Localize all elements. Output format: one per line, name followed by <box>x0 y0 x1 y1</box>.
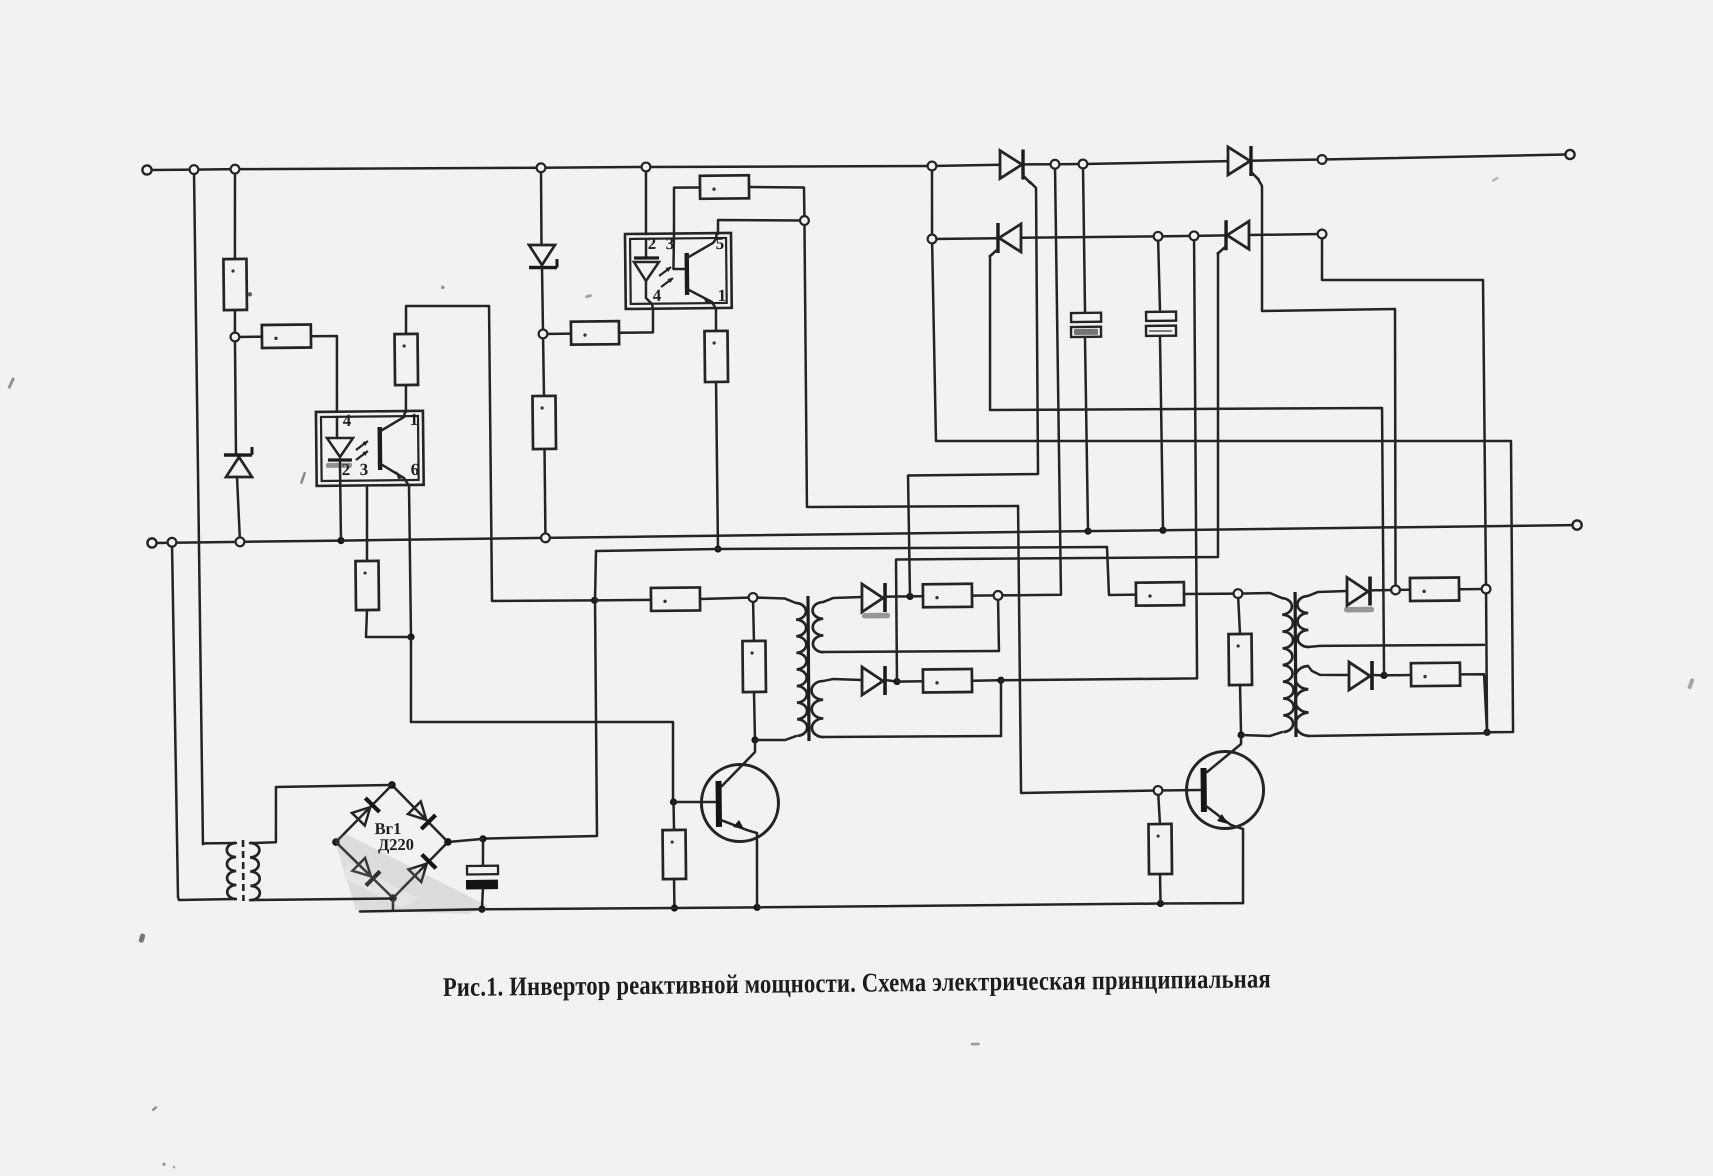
wire: VT2 collector <box>1207 735 1242 772</box>
node: rowA after R17 <box>1482 585 1491 594</box>
node: bottom bus / left column end <box>236 537 245 546</box>
resistor R17 <box>1410 577 1459 601</box>
input transformer T1 primary winding <box>227 843 237 899</box>
wire: commutation loop 441-line <box>932 233 1514 738</box>
zener diode VD1 <box>224 447 252 477</box>
emitter arrow VT2 <box>1217 814 1228 824</box>
wire: U2 phototransistor collector to pin 5 <box>687 234 717 258</box>
wire: feed line drop at x596 <box>594 551 596 600</box>
wire: VS4 gate chain <box>893 253 1223 682</box>
smudged label under VD4 <box>862 613 890 619</box>
node: VT2 base <box>1154 786 1163 795</box>
smudged type label under U1 LED <box>326 463 352 468</box>
junction: rectifier output / C3 <box>479 835 486 842</box>
wire: bottom bus <box>341 538 545 541</box>
wire <box>1023 163 1055 166</box>
svg-text:4: 4 <box>343 411 352 430</box>
svg-text:3: 3 <box>360 460 369 479</box>
wire <box>541 167 646 168</box>
node: rowA gate tap <box>1391 586 1400 595</box>
wire: zener VD1 to bottom bus <box>237 477 240 542</box>
wire: R2 to U1 pin4 <box>311 336 338 412</box>
wire: R1 to node <box>233 310 236 337</box>
node: top bus / zener column <box>537 163 546 172</box>
wire: junction to C3 <box>481 839 484 866</box>
bridge diode VD3.2 <box>408 801 436 829</box>
scan speck <box>151 1106 157 1112</box>
light arrow in U2 <box>659 267 671 276</box>
wire <box>152 168 194 171</box>
wire: R11 to primary T3 node <box>1184 592 1238 595</box>
optocoupler U1 body <box>316 411 424 486</box>
wire: VT1 emitter to minus rail <box>756 833 757 907</box>
wire: U2 pin 5 up and right <box>718 219 802 234</box>
wire: feed line drop to R11 <box>1107 547 1136 595</box>
wire: node to R9 <box>543 332 571 335</box>
node: line2 / row2 return column <box>1190 231 1199 240</box>
junction: base drive node <box>407 633 414 640</box>
wire: minus rail left stub <box>360 909 482 911</box>
terminal: bottom bus left <box>147 538 156 547</box>
LED inside U2 <box>634 258 659 281</box>
wire: R10 down to feed line <box>716 382 718 549</box>
wire: node to R15 <box>1238 594 1240 634</box>
resistor R11 <box>1136 582 1184 606</box>
junction: U1 pin 2 / bottom bus <box>337 537 344 544</box>
scan speck <box>7 377 15 389</box>
node: top bus / row1 return column <box>1051 160 1060 169</box>
LED inside U1 <box>327 438 353 460</box>
bridge diode VD3.3 <box>352 858 380 886</box>
wire: node down and right (VT2 base feed) <box>804 218 1018 508</box>
emitter arrow in U1 <box>396 471 404 479</box>
scan smudge artifact <box>334 833 488 916</box>
junction: rowB bottom / staircase end <box>1483 729 1490 736</box>
wire: VD5 to junction <box>885 680 897 682</box>
node: line2 / capacitor C2 column <box>1154 232 1163 241</box>
resistor R12 <box>742 641 766 692</box>
wire: R6 to junction <box>366 610 411 638</box>
wire: junction to R14 <box>897 680 923 683</box>
wire: junction to bridge + output <box>448 839 483 842</box>
zener diode VD2 <box>529 245 557 268</box>
input transformer T1 secondary winding <box>250 843 260 900</box>
wire: mains column to top bus <box>194 170 203 844</box>
wire: secondary II bottom up <box>1000 680 1001 736</box>
terminal: +supply input left <box>142 165 151 174</box>
phototransistor base bar in U1 <box>377 427 382 470</box>
wire: R16 to minus rail <box>1159 874 1162 904</box>
diode VD7 <box>1349 661 1373 690</box>
wire: U1 phototransistor emitter to pin 6 <box>379 463 409 487</box>
junction: VT1 base node <box>670 798 677 805</box>
transformer T3 core <box>1294 592 1296 737</box>
thyristor VS1 <box>1000 149 1031 183</box>
wire: bottom bus <box>156 542 172 545</box>
resistor R9 <box>571 321 619 345</box>
resistor R2 <box>262 324 311 348</box>
light arrow in U1 <box>356 441 368 450</box>
resistor R4 <box>651 587 700 611</box>
wire: U2 LED cathode to pin 4 <box>646 281 653 309</box>
wire: T2 secondary II top lead <box>823 679 862 681</box>
transformer T2 primary winding <box>796 603 807 736</box>
svg-text:2: 2 <box>648 234 657 253</box>
bridge arm top-right <box>392 784 448 842</box>
wire: node to T2 primary <box>753 597 796 603</box>
bridge diode VD3.1 <box>352 798 380 826</box>
wire: top bus to zener VD2 <box>541 168 542 245</box>
svg-text:1: 1 <box>718 286 727 305</box>
emitter arrow VT1 <box>733 820 744 829</box>
wire: T1 secondary top to bridge <box>249 785 392 843</box>
junction: row2 gate tap <box>893 678 900 685</box>
wire: VD4 to junction <box>885 595 910 598</box>
wire: C3 to minus rail <box>482 889 483 909</box>
light arrow in U1 <box>356 451 368 460</box>
resistor R16 <box>1148 824 1172 874</box>
wire: R12 to bottom node <box>754 692 755 740</box>
node: bottom bus / mains column <box>168 538 177 547</box>
wire: VS2 gate chain <box>1258 178 1398 592</box>
resistor R18 <box>1411 663 1460 687</box>
wire <box>1322 155 1565 160</box>
wire: T3 secondary I top lead <box>1308 591 1347 596</box>
wire: U2 pin 1 to R10 <box>715 309 718 331</box>
smudged label under VD6 <box>1344 607 1374 613</box>
wire <box>1251 159 1322 160</box>
wire: R13 to node <box>972 594 998 597</box>
wire: U2 LED anode <box>645 239 648 258</box>
wire: zener VD2 to node <box>541 267 544 333</box>
thyristor VS3 <box>989 223 1022 257</box>
diode VD5 <box>862 666 886 695</box>
junction: bridge DC right vertex <box>444 838 452 846</box>
wire: R4 to primary T2 node <box>700 597 753 599</box>
optocoupler U2 body <box>625 233 732 309</box>
wire: node to T3 primary <box>1238 593 1282 599</box>
wire: VS1 gate chain <box>905 182 1040 597</box>
capacitor C3 (polarized) <box>466 866 498 890</box>
wire: node to R12 <box>752 597 755 641</box>
wire: R15 to bottom node <box>1240 685 1241 735</box>
wire: T3 secondary I bottom lead <box>1308 644 1484 647</box>
scan speck <box>441 285 445 289</box>
wire: bottom bus <box>1088 529 1163 532</box>
transformer T2 core <box>807 596 809 741</box>
svg-text:6: 6 <box>411 460 420 479</box>
bridge diode VD3.4 <box>408 854 436 882</box>
wire: VS3 gate chain <box>988 252 1384 680</box>
wire: junction to R13 <box>910 595 923 598</box>
junction: C1 / bottom bus <box>1084 528 1091 535</box>
wire <box>194 168 235 171</box>
wire: C1 to bottom bus <box>1085 337 1088 531</box>
terminal: bottom bus right <box>1572 520 1581 529</box>
wire: R8 to bottom bus <box>543 449 546 538</box>
junction: VT1 emitter / minus rail <box>753 904 760 911</box>
scan speck <box>300 472 306 484</box>
scan speck <box>1687 678 1694 690</box>
wire: VT1 base lead <box>674 800 716 803</box>
capacitor C1 <box>1071 313 1101 337</box>
wire: R9 to U2 pin 4 <box>619 309 653 333</box>
wire: x596 column down to rectifier output <box>481 600 598 838</box>
wire: U2 pin 3 to base <box>673 234 684 269</box>
scan speck <box>585 294 593 299</box>
transformer T3 secondary II winding <box>1295 666 1309 736</box>
wire: top bus to C1 <box>1083 164 1085 313</box>
wire: node932 to line2 <box>931 166 932 239</box>
wire: T3 secondary II top lead <box>1308 666 1349 676</box>
wire: minus rail <box>757 903 1160 908</box>
bridge arm bottom-left <box>336 841 393 898</box>
scan speck <box>971 1043 980 1046</box>
wire: long feed to row1 <box>489 305 594 601</box>
wire: VT2 emitter <box>1206 806 1243 830</box>
resistor R6 <box>355 561 379 610</box>
diode VD4 <box>862 583 886 612</box>
capacitor C2 <box>1146 312 1176 336</box>
node: top bus / commutation network column <box>928 162 937 171</box>
thyristor VS2 <box>1228 146 1259 180</box>
transformer T3 primary winding <box>1282 598 1294 732</box>
resistor R13 <box>923 584 972 608</box>
transformer T3 secondary I winding <box>1297 596 1308 647</box>
svg-text:1: 1 <box>410 410 419 429</box>
wire: T2 secondary I top lead <box>823 597 862 602</box>
wire: T1 primary bottom lead <box>178 896 236 900</box>
wire: bottom bus <box>172 541 240 544</box>
phototransistor base bar in U2 <box>684 253 689 295</box>
wire <box>932 237 998 240</box>
wire: T1 primary top lead <box>203 843 236 844</box>
junction: feed line / U2 pin1 column <box>714 545 721 552</box>
node: pin5/R5 junction <box>800 216 809 225</box>
transformer T2 secondary II winding <box>811 681 823 737</box>
node: row1 after R13 <box>994 591 1003 600</box>
transformer T1 core <box>242 840 245 901</box>
wire: feed line right part <box>718 545 1107 551</box>
wire: junction to R4 <box>595 598 651 601</box>
wire: bridge bottom vertex to minus rail <box>392 898 395 910</box>
wire: U2 phototransistor emitter to pin 1 <box>687 289 716 310</box>
resistor R14 <box>923 669 972 693</box>
node: zener column / U2 LED return <box>539 330 548 339</box>
wire: top bus to U2 pin 2 <box>645 167 646 234</box>
wire: R5 right to node <box>749 186 804 221</box>
wire: feed line left part <box>596 549 718 551</box>
wire: VD6 to node <box>1370 589 1395 592</box>
node: R1/R2/zener VD1 junction <box>230 333 239 342</box>
wire: U1 LED cathode to bottom bus (pin 2) <box>340 461 341 540</box>
wire: row2 return to line2 <box>996 236 1198 681</box>
junction: C3 / minus rail <box>478 906 485 913</box>
resistor R3 <box>395 334 419 385</box>
wire <box>235 166 541 171</box>
junction: row1 gate tap <box>906 593 913 600</box>
svg-text:Д220: Д220 <box>378 835 414 854</box>
junction: bridge DC left vertex <box>332 838 340 846</box>
wire: VD7 to junction <box>1372 674 1384 677</box>
resistor R15 <box>1229 634 1253 685</box>
wire: U1 LED anode <box>336 417 339 438</box>
thyristor VS4 <box>1217 220 1250 254</box>
wire: base node to R7 <box>672 802 675 830</box>
wire: T2 primary bottom lead <box>755 736 796 740</box>
wire: T1 secondary bottom to bridge <box>250 898 393 900</box>
wire: minus rail right part <box>1161 903 1243 904</box>
scan speck <box>248 292 252 296</box>
transistor VT1 <box>701 764 779 842</box>
junction: row1 feed cross <box>591 597 598 604</box>
wire <box>1249 233 1322 236</box>
transistor VT2 <box>1186 751 1264 829</box>
scan speck <box>138 933 145 943</box>
wire: U1 pin 1 to R3 <box>404 385 407 412</box>
wire: R18 right down to junction <box>1460 674 1487 732</box>
wire: T3 secondary II bottom lead <box>1308 733 1487 736</box>
wire: rowA node down to junction <box>1486 589 1488 732</box>
wire: minus rail <box>674 907 757 908</box>
node: top bus / capacitor C1 column <box>1079 160 1088 169</box>
wire: U1 pin 3 down to R6 <box>366 486 368 561</box>
resistor R1 <box>223 259 247 310</box>
wire: R17 to node <box>1459 588 1486 591</box>
wire <box>1083 161 1228 164</box>
resistor R10 <box>705 331 729 382</box>
scan speck <box>1492 176 1499 182</box>
bridge arm bottom-right <box>392 842 448 898</box>
junction: rowB gate tap <box>1380 672 1387 679</box>
junction: C2 / bottom bus <box>1159 527 1166 534</box>
wire: U1 pin 6 down to junction <box>409 486 411 637</box>
wire: secondary I bottom up to node <box>997 595 1000 651</box>
node: bottom bus / zener column <box>541 533 550 542</box>
wire: R14 to junction <box>972 679 1001 682</box>
wire: staircase right column <box>1322 232 1487 590</box>
resistor R8 <box>532 396 556 449</box>
wire: mains column to bottom bus <box>172 542 178 897</box>
wire: bottom bus <box>240 541 341 542</box>
wire: node to R2 <box>235 335 262 338</box>
node: top bus / left resistor column <box>231 165 240 174</box>
wire: VT1 emitter <box>721 820 757 834</box>
wire: U1 phototransistor collector to pin 1 <box>379 412 405 432</box>
wire <box>1158 235 1194 238</box>
node: top bus / optocoupler U2 LED feed <box>642 163 651 172</box>
junction: T2 primary bottom / VT1 collector <box>751 736 758 743</box>
node: T3 primary top <box>1234 589 1243 598</box>
bridge arm top-left <box>335 785 392 842</box>
light arrow in U2 <box>661 278 673 287</box>
wire: line2 to C2 <box>1158 236 1160 312</box>
terminal: top bus right output <box>1565 150 1574 159</box>
junction: bridge AC top vertex <box>388 781 396 789</box>
scan speck <box>162 1163 165 1166</box>
wire: T2 secondary II bottom lead <box>823 735 1001 738</box>
node: top bus / right staircase column <box>1318 155 1327 164</box>
node: top bus / input transformer column <box>190 165 199 174</box>
wire: VT1 collector <box>721 740 755 786</box>
junction: R7 / bottom rail <box>671 904 678 911</box>
wire: T3 primary bottom lead <box>1241 732 1282 736</box>
junction: row2 after R14 <box>997 677 1004 684</box>
wire: bottom bus <box>1163 525 1572 530</box>
diode VD6 <box>1347 577 1371 606</box>
node: line2 right end <box>1318 230 1327 239</box>
junction: T3 primary bottom / VT2 collector <box>1237 731 1244 738</box>
wire: VT2 base feed drop <box>1018 505 1158 793</box>
resistor R5 <box>700 175 749 199</box>
scan speck <box>173 1166 176 1169</box>
wire: node to RA <box>1396 589 1410 592</box>
junction: R16 / minus rail <box>1157 900 1164 907</box>
node: T2 primary top <box>749 593 758 602</box>
wire: C2 to bottom bus <box>1160 336 1163 530</box>
emitter arrow in U2 <box>703 296 712 304</box>
wire: T2 secondary I bottom lead <box>823 650 999 653</box>
wire: bottom bus <box>545 531 1088 538</box>
svg-text:4: 4 <box>653 286 662 305</box>
wire: R5 left to U2 pin 3 column <box>673 187 700 234</box>
resistor R7 <box>663 830 687 879</box>
wire <box>1194 234 1226 237</box>
wire <box>646 164 932 169</box>
wire: node to zener VD1 <box>235 337 236 455</box>
transformer T2 secondary I winding <box>812 602 823 652</box>
wire: minus rail <box>482 907 674 910</box>
node: line2 left end <box>928 235 937 244</box>
wire: R7 to bottom rail <box>673 879 676 908</box>
wire: R3 top to down-column <box>406 305 490 334</box>
wire: top bus to R1 <box>234 169 236 259</box>
wire: base drive to VT1 base node <box>410 634 674 805</box>
wire: node to R8 <box>542 334 545 396</box>
wire: row1 return to top bus <box>993 164 1061 595</box>
wire <box>932 165 1000 166</box>
wire: base node to R16 <box>1158 790 1160 824</box>
wire: VT2 base lead <box>1158 789 1200 792</box>
wire: junction to RB <box>1384 674 1411 677</box>
junction: bridge AC bottom vertex <box>389 894 397 902</box>
wire <box>1021 236 1158 237</box>
wire: VT2 emitter to minus rail corner <box>1242 829 1244 903</box>
wire <box>1055 163 1083 166</box>
